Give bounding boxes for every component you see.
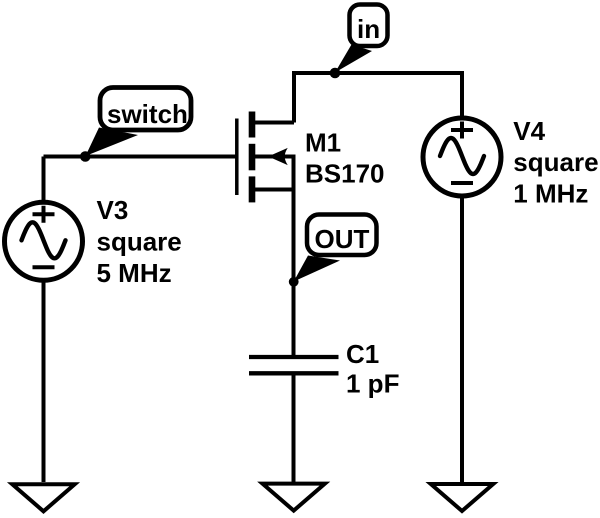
svg-text:M1: M1 — [305, 127, 341, 157]
svg-text:OUT: OUT — [315, 224, 370, 254]
svg-text:1 MHz: 1 MHz — [513, 178, 588, 208]
svg-text:square: square — [513, 147, 598, 177]
svg-text:BS170: BS170 — [305, 159, 385, 189]
svg-text:square: square — [97, 227, 182, 257]
svg-text:5 MHz: 5 MHz — [97, 258, 172, 288]
svg-text:V3: V3 — [97, 195, 129, 225]
svg-text:1 pF: 1 pF — [346, 368, 399, 398]
svg-text:V4: V4 — [513, 116, 545, 146]
svg-text:switch: switch — [107, 99, 188, 129]
svg-text:in: in — [357, 14, 380, 44]
svg-text:C1: C1 — [346, 339, 379, 369]
